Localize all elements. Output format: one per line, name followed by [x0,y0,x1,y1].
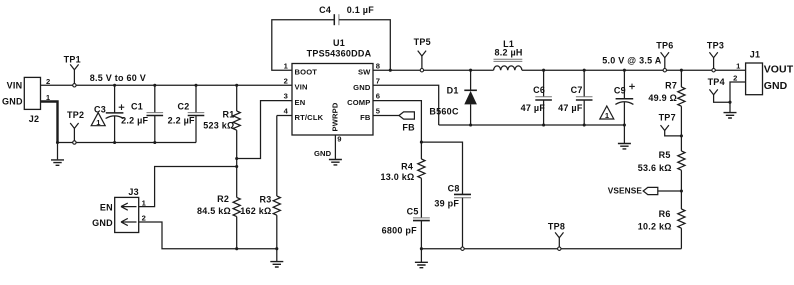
resistor R4 [418,142,425,218]
svg-text:GND: GND [2,97,23,107]
svg-text:162 kΩ: 162 kΩ [240,206,271,216]
junction C3 top [113,84,116,87]
svg-text:U1: U1 [333,38,345,48]
svg-text:FB: FB [360,113,371,122]
svg-text:84.5 kΩ: 84.5 kΩ [197,206,231,216]
capacitor C3 (polarized) [106,85,125,142]
junction R5/R6 VSENSE tap [680,189,683,192]
svg-text:C3: C3 [94,104,106,114]
svg-text:GND: GND [764,80,788,92]
wire SW rail from U1 pin 8 to L1 [373,69,494,71]
wire R3 ground stem [276,249,278,262]
capacitor C9 (polarized) [615,70,634,125]
inductor L1 [494,59,523,70]
svg-text:VOUT: VOUT [764,64,794,76]
svg-text:47 µF: 47 µF [558,103,583,113]
svg-text:C7: C7 [571,85,583,95]
svg-text:C9: C9 [614,85,626,95]
test point TP3 [707,40,724,72]
svg-text:C8: C8 [448,184,460,194]
junction C7 bottom [583,123,586,126]
svg-text:SW: SW [358,68,371,77]
junction C9 bottom [623,123,626,126]
junction C2 top [194,84,197,87]
svg-text:8.2 µH: 8.2 µH [494,47,522,57]
capacitor C4 [334,14,339,25]
wire U1 pin9 to ground [334,135,336,159]
svg-text:BOOT: BOOT [295,68,318,77]
test point TP1 [64,54,81,87]
wire ground stem at J2 [57,143,59,160]
wire output rail from L1 to J1 [522,69,746,71]
svg-text:R5: R5 [659,150,671,160]
junction R7 bottom / TP7 [680,134,683,137]
svg-text:TP4: TP4 [708,77,725,87]
connector J1 [746,50,763,95]
svg-text:B560C: B560C [429,106,459,116]
ground symbol below U1 pin 9 [329,160,342,165]
svg-text:EN: EN [100,202,113,212]
junction COMP node [420,141,423,144]
wire C4 to SW rail [339,20,390,70]
test point TP8 [548,222,565,251]
junction C9 top [623,69,626,72]
svg-text:TP7: TP7 [659,113,676,123]
svg-text:TP6: TP6 [656,40,673,50]
svg-text:VIN: VIN [295,83,308,92]
wire J1 pin2 to ground [730,82,746,112]
junction TP4/J1 gnd [728,101,731,104]
connector J3 [115,187,139,233]
junction R2 bottom [235,247,238,250]
svg-text:4: 4 [284,107,289,116]
junction D1 top [469,69,472,72]
capacitor C1 [147,85,164,142]
svg-text:GND: GND [314,149,332,158]
junction C4 drop on SW rail [389,69,392,72]
svg-text:5: 5 [376,107,381,116]
svg-text:C2: C2 [177,102,189,112]
diode D1 B560C [464,70,477,125]
svg-text:3: 3 [284,92,288,101]
wire J3 pin1 branch [139,167,237,207]
wire J2 pin1 to ground (thick) [41,102,58,143]
capacitor C2 [188,85,205,142]
wire RT/CLK stub [277,115,292,117]
svg-text:VIN: VIN [7,80,23,90]
svg-text:523 kΩ: 523 kΩ [203,121,234,131]
svg-text:TP2: TP2 [67,110,84,120]
svg-text:R7: R7 [665,80,677,90]
op-amp-style IC U1 TPS54360DDA [292,38,373,135]
svg-text:10.2 kΩ: 10.2 kΩ [638,222,672,232]
resistor R7 [678,70,685,151]
svg-text:GND: GND [92,218,113,228]
svg-text:R6: R6 [659,209,671,219]
svg-text:5.0 V @ 3.5 A: 5.0 V @ 3.5 A [602,55,661,65]
svg-text:J1: J1 [750,50,761,60]
junction R1 to EN tap [235,157,238,160]
capacitor C6 [535,70,552,125]
wire EN branch to U1 pin 3 [237,101,292,159]
svg-text:7: 7 [376,76,380,85]
net flag VSENSE [608,185,682,195]
svg-text:EN: EN [295,98,306,107]
wire BOOT loop to C4 [272,20,335,71]
svg-text:J2: J2 [29,114,40,124]
svg-text:C5: C5 [407,206,419,216]
junction J2 gnd corner [56,141,59,144]
junction C1 top [153,84,156,87]
junction C8 bottom (ring) [461,247,464,250]
svg-text:49.9 Ω: 49.9 Ω [648,93,677,103]
ground symbol below C5 [415,262,428,267]
svg-text:C1: C1 [131,102,143,112]
svg-text:1: 1 [284,61,289,70]
svg-text:1: 1 [736,62,741,71]
junction R1 to J3 tap [235,165,238,168]
wire bottom rail [421,248,681,250]
svg-text:COMP: COMP [347,98,370,107]
test point TP6 [656,40,673,72]
svg-text:PWRPD: PWRPD [330,102,339,131]
ground symbol below J2 [51,160,64,165]
svg-text:1: 1 [142,199,147,208]
resistor R3 [273,116,280,249]
svg-text:13.0 kΩ: 13.0 kΩ [381,172,415,182]
svg-text:GND: GND [353,83,371,92]
svg-text:2: 2 [142,214,146,223]
wire left ground rail [58,142,197,144]
capacitor C8 [454,194,471,247]
test point TP4 [708,77,730,102]
wire U1 GND pin 7 to ground rail [373,85,439,125]
junction C6 top [542,69,545,72]
junction R7 top [680,69,683,72]
wire COMP pin 6 to compensation network [373,101,421,143]
wire ground stem below C5 [420,249,422,262]
test point TP7 [659,113,682,136]
junction C6 bottom [542,123,545,126]
svg-text:2: 2 [284,76,288,85]
svg-text:VSENSE: VSENSE [608,185,643,195]
resistor R5 [678,151,685,209]
junction R1 top [235,84,238,87]
connector J2 [24,77,40,123]
junction R3 bottom [275,247,278,250]
ground symbol below C9 [618,144,631,149]
resistor R1 [233,85,240,197]
svg-text:2: 2 [46,77,50,86]
svg-text:8: 8 [376,61,380,70]
svg-text:R1: R1 [222,109,234,119]
wire VIN rail from J2 to U1 pin 2 [41,84,293,86]
svg-text:6: 6 [376,92,380,101]
junction C3 bottom [113,141,116,144]
svg-text:TP8: TP8 [548,222,565,232]
svg-text:FB: FB [402,122,415,132]
capacitor C7 [576,70,593,125]
svg-text:53.6 kΩ: 53.6 kΩ [638,163,672,173]
svg-text:39 pF: 39 pF [434,198,459,208]
svg-text:J3: J3 [128,187,139,197]
svg-text:R3: R3 [259,194,271,204]
svg-text:R4: R4 [401,162,413,172]
junction C5 bottom [420,247,423,250]
ground symbol below R3 [270,262,283,267]
junction D1 bottom [469,123,472,126]
junction C1 bottom [153,141,156,144]
wire ground stem below C9 [623,125,625,143]
svg-text:6800 pF: 6800 pF [382,225,418,235]
svg-text:C6: C6 [533,85,545,95]
svg-text:2.2 µF: 2.2 µF [121,115,148,125]
svg-text:TPS54360DDA: TPS54360DDA [307,48,372,58]
svg-text:47 µF: 47 µF [521,103,546,113]
warning triangle 1 at C9 [600,106,614,120]
svg-text:C4: C4 [319,5,331,15]
wire J3 pin2 to bottom rail [139,222,277,249]
svg-text:0.1 µF: 0.1 µF [347,5,374,15]
svg-text:TP1: TP1 [64,54,81,64]
svg-text:8.5 V to 60 V: 8.5 V to 60 V [90,73,146,83]
svg-text:2: 2 [733,74,737,83]
net flag FB [373,112,415,132]
svg-text:9: 9 [337,135,341,144]
wire COMP node to C8 [421,142,462,194]
resistor R2 [233,197,240,248]
svg-text:2.2 µF: 2.2 µF [168,115,195,125]
svg-text:D1: D1 [447,85,459,95]
svg-text:RT/CLK: RT/CLK [295,113,324,122]
wire right ground rail [439,124,625,126]
warning triangle 1 at C3 [91,113,105,127]
capacitor C5 [413,218,430,249]
svg-text:TP5: TP5 [414,37,431,47]
resistor R6 [678,209,685,249]
svg-text:TP3: TP3 [707,40,724,50]
ground symbol below J1 pin2 [724,113,737,118]
test point TP2 [67,110,84,144]
junction C7 top [583,69,586,72]
test point TP5 [414,37,431,72]
svg-text:R2: R2 [217,194,229,204]
